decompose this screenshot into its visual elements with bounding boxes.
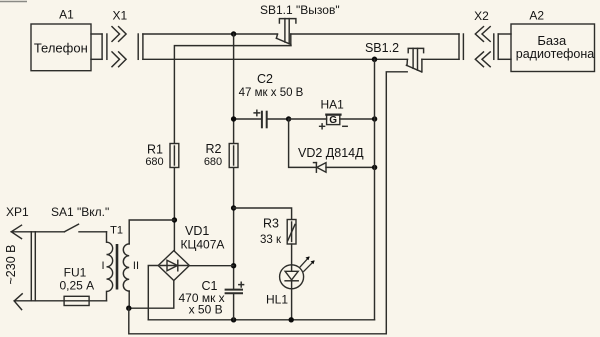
wire R2 bottom to C1 node [233, 168, 235, 290]
svg-text:R2: R2 [206, 142, 222, 156]
svg-text:х 50 В: х 50 В [189, 303, 223, 317]
svg-text:R1: R1 [147, 143, 163, 157]
node secondary bottom [126, 306, 131, 311]
resistor R3 (33 к) [260, 217, 296, 247]
node HL1 on rail [289, 317, 294, 322]
resistor R1 [145, 143, 178, 169]
wire node to HA1 [289, 118, 327, 120]
svg-text:VD2 Д814Д: VD2 Д814Д [298, 146, 364, 160]
box A1 (Телефон) [31, 8, 91, 71]
svg-text:C2: C2 [257, 72, 273, 86]
svg-text:База: База [537, 33, 567, 48]
wire secondary top to R1 node [129, 220, 174, 244]
svg-text:A1: A1 [59, 8, 74, 22]
svg-text:680: 680 [145, 156, 163, 168]
switch SA1 "Вкл." [51, 205, 109, 232]
wire C2 to HA1 node [267, 118, 288, 120]
connector X1 [102, 9, 143, 67]
svg-text:SB1.1 "Вызов": SB1.1 "Вызов" [260, 3, 340, 17]
node R1 / secondary top [172, 217, 177, 222]
svg-text:XP1: XP1 [6, 205, 29, 219]
node C2 / VD2 branch [286, 116, 291, 121]
svg-text:~230 В: ~230 В [4, 245, 18, 285]
svg-text:X2: X2 [474, 9, 489, 23]
svg-text:Телефон: Телефон [34, 41, 88, 56]
svg-text:FU1: FU1 [64, 266, 87, 280]
svg-text:HA1: HA1 [321, 98, 345, 112]
transformer T1 [102, 225, 140, 301]
rectifier bridge VD1 КЦ407А [158, 224, 224, 281]
wire bridge minus corner to rail [148, 266, 158, 320]
resistor R2 [204, 142, 238, 168]
wire X2 to A2 top [498, 33, 511, 35]
node bridge plus / C1 top [231, 263, 236, 268]
svg-text:A2: A2 [529, 9, 544, 23]
scan artifact top left [0, 1, 27, 3]
wire riser top wire to R2 [233, 34, 235, 144]
node top line / C2 riser [231, 31, 236, 36]
svg-text:VD1: VD1 [185, 224, 209, 238]
plug XP1 (~230 В) [4, 205, 107, 310]
box A2 (База радиотефона) [511, 9, 595, 72]
switch SB1.1 "Вызов" [260, 3, 340, 44]
svg-text:КЦ407А: КЦ407А [181, 238, 225, 252]
wire top line X1 to SB1.1 [143, 33, 278, 35]
connector X2 [459, 9, 498, 67]
svg-text:II: II [133, 260, 139, 272]
svg-text:SB1.2: SB1.2 [365, 41, 399, 55]
capacitor C2 (47 мк x 50 В) [239, 72, 304, 128]
node bottom line / right vertical [372, 57, 378, 63]
svg-text:HL1: HL1 [266, 293, 288, 307]
svg-text:I: I [102, 260, 105, 272]
wire inner minus rail [148, 319, 374, 321]
wire bottom line X1 to SB1.2 [143, 58, 408, 60]
wire outer loop to SB1.2 throw [129, 72, 407, 334]
diode VD2 Д814Д (zener) [298, 146, 364, 172]
wire X2 to A2 bottom [498, 58, 511, 60]
wire bridge plus to C1 node [189, 265, 233, 267]
wire A1 to X1 top [91, 33, 102, 35]
wire R3 to HL1 [291, 244, 293, 265]
svg-text:G: G [329, 115, 337, 126]
wire R3 branch from R2 node [234, 208, 292, 220]
wire R1 bottom to bridge top [173, 168, 175, 251]
sounder HA1 [320, 98, 348, 129]
wire HA1 to right vertical [340, 118, 375, 120]
svg-text:47 мк x 50 В: 47 мк x 50 В [239, 87, 304, 99]
svg-text:680: 680 [204, 156, 222, 168]
node R2 bottom / R3 branch [231, 205, 236, 210]
svg-text:R3: R3 [263, 217, 279, 231]
svg-text:33 к: 33 к [260, 234, 282, 246]
svg-text:X1: X1 [112, 9, 127, 23]
node VD2 right [372, 165, 377, 170]
wire secondary bottom to bridge AC2 [129, 281, 174, 309]
node HA1 right [372, 116, 377, 121]
switch SB1.2 [365, 41, 424, 72]
wire C2 row left [234, 118, 262, 120]
fuse FU1 (0,25 А) [59, 266, 94, 306]
wire right vertical (line to minus rail) [374, 59, 376, 320]
node C1 on rail [231, 317, 236, 322]
wire HL1 to minus rail [291, 289, 293, 320]
wire A1 to X1 bottom [91, 58, 102, 60]
svg-text:0,25 А: 0,25 А [59, 279, 94, 293]
LED HL1 [266, 256, 315, 306]
wire SB1.2 to X2 [422, 58, 459, 60]
svg-text:T1: T1 [110, 225, 123, 237]
wire VD2 branch down and right [289, 119, 317, 167]
wire VD2 to right vertical [326, 166, 375, 168]
node C2 riser [231, 116, 236, 121]
capacitor C1 (470 мк x 50 В) [178, 279, 243, 320]
wire SB1.1 to X2 [291, 33, 459, 35]
svg-text:радиотефона: радиотефона [516, 47, 595, 61]
svg-text:SA1 "Вкл.": SA1 "Вкл." [51, 205, 109, 219]
wire R1 net: R1 top up and right to SB1.1 throw [174, 46, 291, 144]
